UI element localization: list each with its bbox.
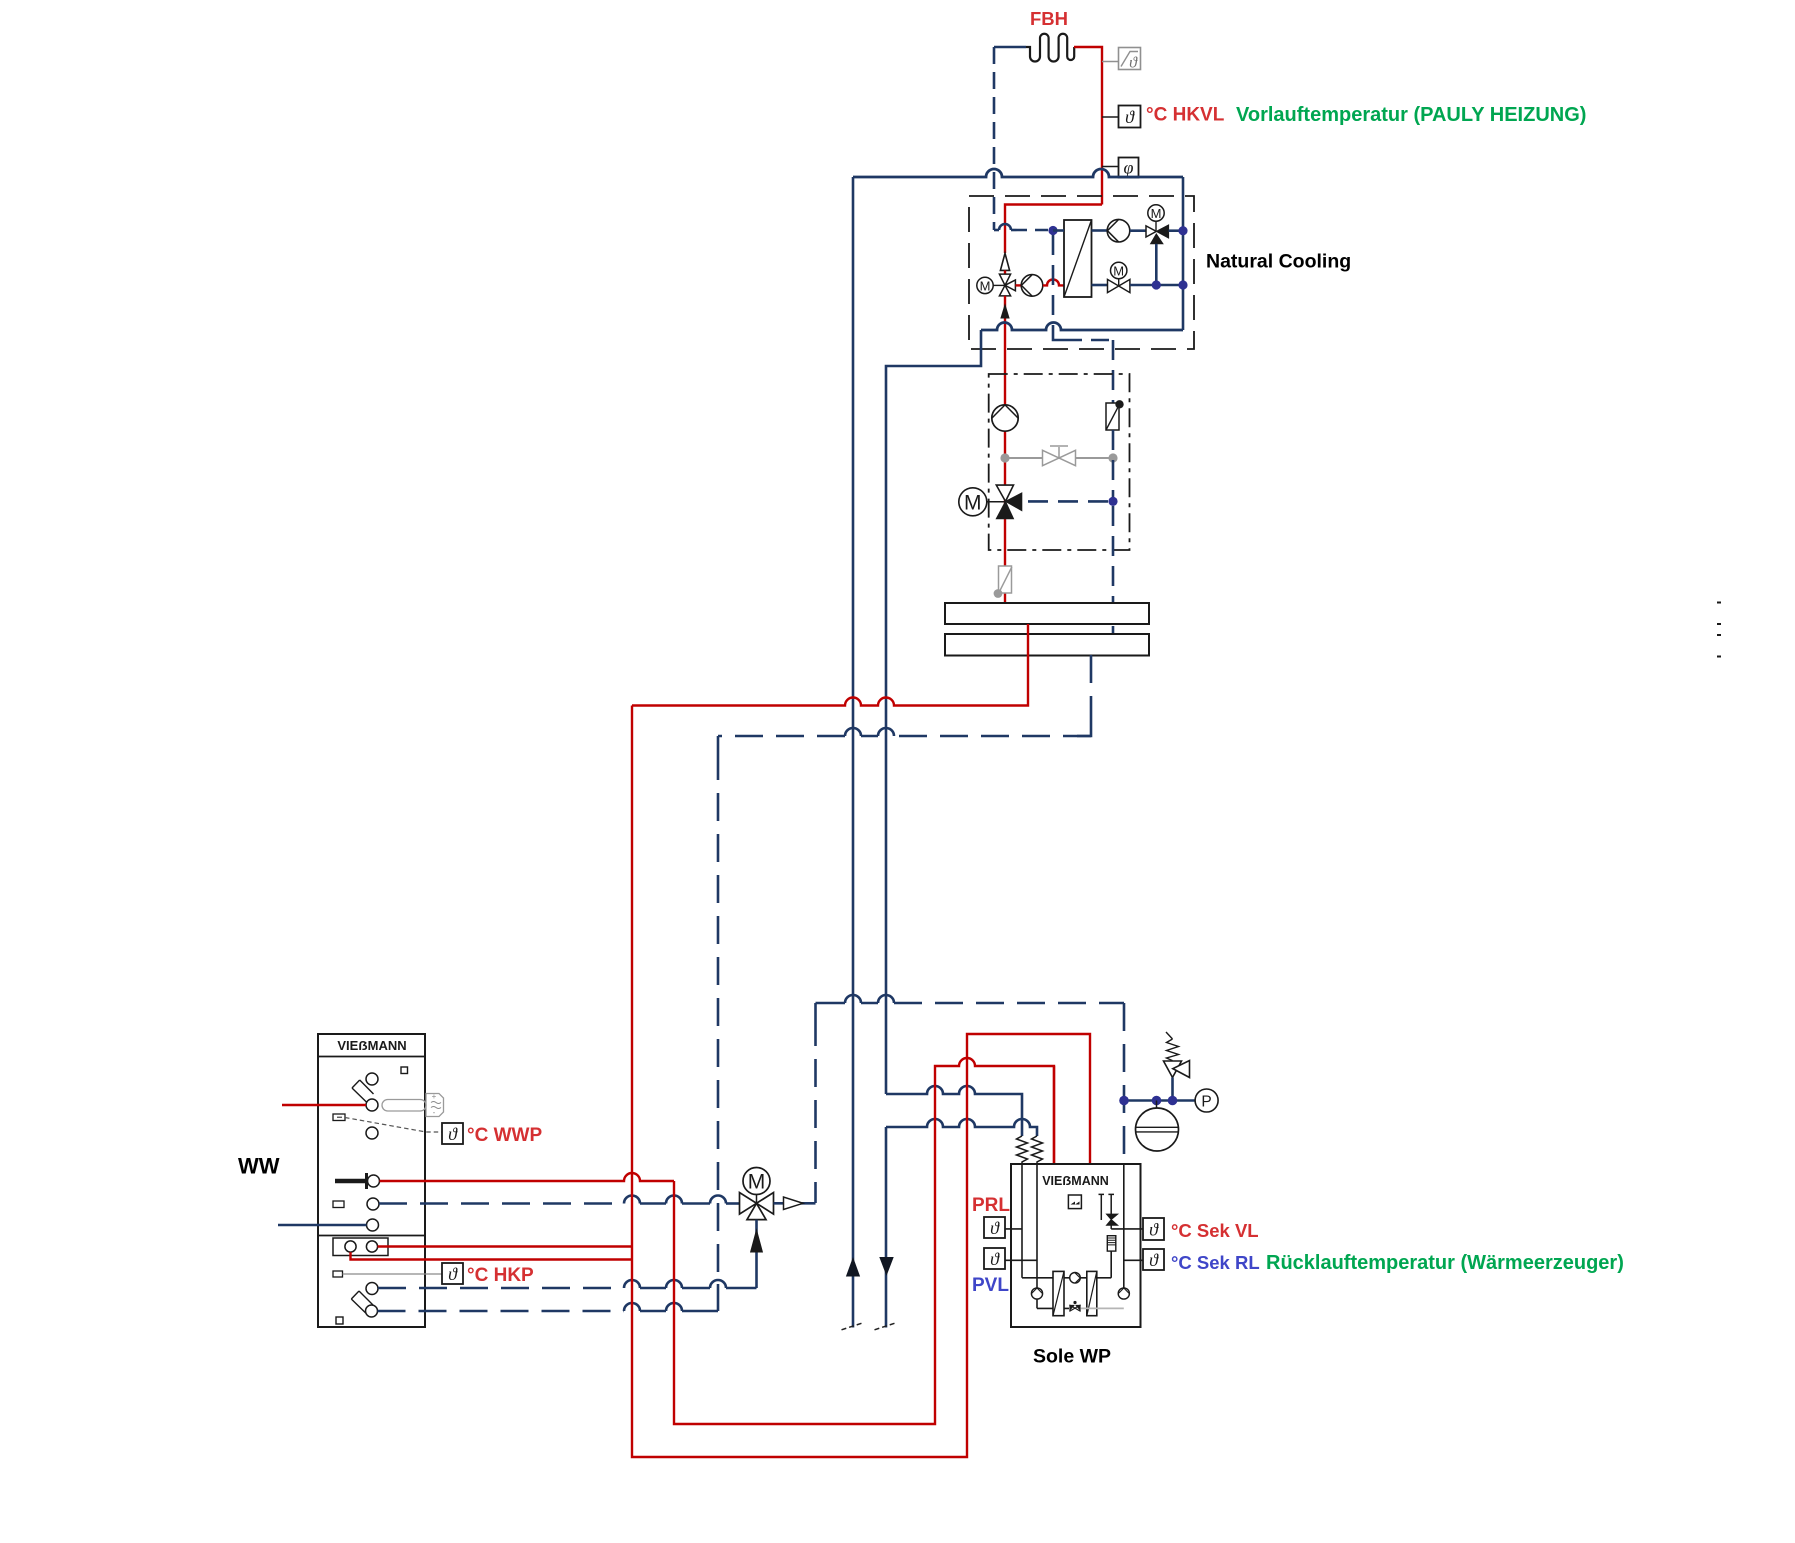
svg-text:PVL: PVL — [972, 1275, 1009, 1296]
svg-text:+: + — [432, 1092, 437, 1101]
break mark brine down pipe — [875, 1323, 898, 1330]
wire blue dashed mix inlet from flow switch drop — [1112, 430, 1115, 497]
heating circuit box border (dash-dot) — [989, 374, 1130, 550]
svg-text:ϑ: ϑ — [448, 1124, 458, 1144]
break mark brine riser — [842, 1323, 865, 1330]
WP pump left — [1031, 1288, 1042, 1299]
sensor connector phi — [1102, 166, 1119, 168]
WP drain valve — [1069, 1305, 1080, 1312]
sensor lead to HKP box — [343, 1273, 443, 1275]
node gray left — [1000, 453, 1009, 462]
wire blue WP brine return y=1127 with hops over x=935, x=967, x=1022 — [886, 1119, 1037, 1136]
wire red FBH supply from coil — [1074, 47, 1102, 205]
brine expansion coil left — [1017, 1136, 1028, 1164]
svg-text:-: - — [433, 1108, 436, 1117]
expansion vessel stub — [1156, 1101, 1158, 1109]
wire blue gate valve to right — [1130, 284, 1183, 287]
tank small square top — [401, 1067, 408, 1074]
wire blue dashed tank y=1204 with hops over x=632,674,717 — [379, 1202, 624, 1205]
svg-text:ϑ: ϑ — [448, 1264, 458, 1284]
wire blue dashed WP supply y=1003 with hops over x=852 and x=886 — [816, 1002, 846, 1005]
svg-text:ϑ: ϑ — [1125, 107, 1135, 127]
wire blue dashed NC top inlet with hop over red x=1005 — [994, 229, 999, 232]
pump heating circuit — [992, 405, 1018, 431]
wire red block right to riser — [378, 1245, 632, 1247]
wire red NC inlet elbow — [1005, 205, 1102, 254]
svg-text:M: M — [1113, 264, 1124, 279]
svg-text:ϑ: ϑ — [1149, 1250, 1159, 1270]
tank port circle B — [366, 1099, 378, 1111]
expansion vessel — [1136, 1108, 1179, 1151]
flow arrow up on brine riser x=853 — [847, 1259, 860, 1277]
manifold lower bar — [945, 634, 1149, 656]
svg-text:VIEẞMANN: VIEẞMANN — [1042, 1174, 1109, 1188]
flow switch paddle (below box) — [999, 566, 1012, 593]
wire blue safety valve stub — [1171, 1078, 1174, 1101]
wire blue NC bottom return with hops over x=1005 and x=1053 — [981, 323, 1183, 330]
tank port circle H — [367, 1219, 379, 1231]
svg-text:ϑ: ϑ — [990, 1218, 1000, 1238]
wire blue dashed HX bypass drop x=1053 — [1052, 235, 1055, 330]
heat exchanger NC — [1064, 220, 1092, 297]
wire blue dashed drop x=718 — [717, 736, 720, 752]
wire red valve to NC pump — [1015, 284, 1021, 286]
3-way valve NC top (black right and bottom) — [1146, 226, 1156, 237]
flow switch paddle (in box) — [1106, 403, 1119, 430]
wire blue dashed WP drop x=1124 — [1123, 1003, 1126, 1164]
wire blue NC valve bottom drop — [1155, 244, 1158, 285]
tank port circle K — [366, 1283, 378, 1295]
wire blue dashed manifold return riser x=1091 — [1090, 655, 1093, 720]
sensor connector gray — [1102, 61, 1119, 63]
KFE pipes with caps — [1099, 1194, 1115, 1220]
wire blue dashed down to manifold — [1112, 506, 1115, 634]
PVL connector — [1005, 1259, 1037, 1261]
tank port circle E — [368, 1175, 380, 1187]
svg-text:ϑ: ϑ — [1149, 1220, 1159, 1240]
WP Sek RL connector — [1124, 1259, 1143, 1261]
svg-text:Vorlauftemperatur (PAULY HEIZU: Vorlauftemperatur (PAULY HEIZUNG) — [1236, 104, 1586, 126]
wire blue elbow down-left to brine drop — [886, 330, 981, 1094]
wire blue inlet y=1225 — [278, 1224, 367, 1227]
wire blue dashed tank y=1311 with hops over x=632,674 — [378, 1310, 625, 1313]
wire blue dashed valve outlet riser x=815.5 — [814, 1003, 817, 1018]
svg-text:Natural Cooling: Natural Cooling — [1206, 251, 1351, 273]
WP condenser HX1 — [1053, 1271, 1064, 1315]
svg-text:°C Sek RL: °C Sek RL — [1171, 1252, 1260, 1273]
motor M for heating mix valve — [959, 488, 987, 516]
WP internal brine pipe right — [1037, 1164, 1069, 1308]
wire blue HX lower to gate valve — [1092, 284, 1108, 287]
check valve NC — [1000, 253, 1009, 270]
temperature sensor box HKP — [442, 1263, 463, 1284]
wire blue dashed tank y=1288 with hops over x=632,674,717 — [378, 1287, 624, 1290]
3-way diverting valve WW (white) — [740, 1193, 757, 1215]
floor-heating coil FBH — [1026, 34, 1074, 62]
electric heater capsule — [382, 1100, 426, 1112]
tank connection block — [333, 1238, 388, 1256]
tank port circle G — [367, 1198, 379, 1210]
wire red cold water inlet — [282, 1104, 366, 1106]
svg-text:°C HKVL: °C HKVL — [1146, 105, 1225, 126]
motor M for NC mixing valve — [977, 277, 993, 293]
wire blue valve outlet to riser — [774, 1202, 816, 1205]
PRL connector — [1005, 1228, 1022, 1230]
tank sensor tap J — [333, 1271, 343, 1277]
tank port circle L — [366, 1305, 378, 1317]
WP evaporator HX2 — [1087, 1271, 1097, 1315]
svg-text:°C HKP: °C HKP — [467, 1265, 534, 1286]
brine expansion coil right — [1032, 1136, 1043, 1164]
WP controller display — [1068, 1195, 1081, 1209]
svg-text:VIEẞMANN: VIEẞMANN — [337, 1038, 406, 1053]
wire red Sek RL drop into WP — [1053, 1066, 1055, 1164]
wire blue dot to HX top — [1053, 229, 1064, 232]
tank sensor tap WWP — [333, 1114, 345, 1121]
wire blue dashed FBH return drop x=994 — [993, 47, 996, 230]
svg-text:φ: φ — [1124, 158, 1134, 178]
motor M for NC gate valve — [1111, 262, 1127, 278]
svg-text:ϑ: ϑ — [1129, 55, 1138, 72]
wire blue HX top to pump — [1092, 229, 1108, 232]
safety valve spring — [1166, 1032, 1179, 1061]
node gray right — [1108, 453, 1117, 462]
temperature sensor box WWP — [442, 1123, 463, 1144]
tank port circle A — [366, 1073, 378, 1085]
flow direction triangle on outlet — [784, 1197, 804, 1210]
node NC lower right junction — [1178, 280, 1187, 289]
flow arrow up into valve — [751, 1230, 763, 1252]
tank WW outlet T-bar — [335, 1179, 366, 1183]
svg-text:M: M — [980, 278, 991, 293]
WP pump center — [1070, 1273, 1081, 1284]
wire blue return stub to coil — [994, 46, 1026, 49]
svg-text:PRL: PRL — [972, 1195, 1010, 1216]
wire blue valve to right header — [1169, 229, 1183, 232]
tank coil zigzag lower — [351, 1291, 373, 1313]
node mix branch — [1108, 497, 1117, 506]
svg-text:Rücklauftemperatur (Wärmeerzeu: Rücklauftemperatur (Wärmeerzeuger) — [1266, 1252, 1624, 1274]
flow arrow down on brine pipe x=886 — [880, 1258, 893, 1275]
node safety valve tee — [1168, 1096, 1178, 1106]
WP right internal vertical — [1123, 1164, 1125, 1288]
3-way mixing valve heating (black right+bottom) — [996, 485, 1013, 501]
temperature sensor box Sek RL — [1143, 1249, 1164, 1270]
tank coil zigzag upper — [352, 1080, 374, 1102]
block circle left — [345, 1241, 356, 1252]
wire blue pump to NC top valve — [1130, 229, 1146, 232]
node NC top-right junction — [1178, 226, 1187, 235]
Natural Cooling box border — [969, 196, 1194, 349]
manifold upper bar — [945, 603, 1149, 624]
gate valve NC lower — [1108, 279, 1130, 292]
3-way mixing valve NC (white) — [999, 274, 1010, 285]
gray balancing line — [1005, 457, 1113, 459]
wire blue WP brine supply y=1094 with hops over x=935 and x=967 — [886, 1086, 1022, 1136]
sensor connector black — [1102, 116, 1119, 118]
wire blue valve bottom inlet — [755, 1220, 758, 1288]
pump NC upper — [1107, 219, 1130, 242]
sensor box outdoor-compensated (gray) — [1119, 48, 1141, 70]
flow arrow up on red supply — [1001, 305, 1009, 318]
motor M for WW diverting valve — [743, 1168, 770, 1195]
svg-text:M: M — [748, 1171, 766, 1194]
KFE valve (black bowtie vertical) — [1107, 1214, 1118, 1225]
svg-text:WW: WW — [238, 1154, 280, 1179]
WW storage tank body — [318, 1034, 425, 1327]
tank lower divider — [318, 1235, 425, 1237]
temperature sensor box Sek VL — [1143, 1218, 1164, 1240]
wire red x=674 down and over to x=935 up, hop over x=967 on y=1066 — [674, 1058, 1054, 1424]
svg-text:°C WWP: °C WWP — [467, 1125, 542, 1146]
tick marks right margin — [1717, 602, 1721, 604]
pump NC lower — [1021, 275, 1043, 297]
temperature sensor box HKVL — [1119, 106, 1141, 128]
svg-text:Sole WP: Sole WP — [1033, 1346, 1111, 1368]
node NC top-left junction — [1048, 226, 1057, 235]
wire red manifold outlet drop with hops over x=886 and x=852 — [632, 624, 1028, 706]
Sole WP box — [1011, 1164, 1141, 1327]
node safety header left — [1119, 1096, 1129, 1106]
gate valve gray with T-handle — [1043, 450, 1076, 465]
tank sensor tap F — [333, 1201, 344, 1208]
wire red WW line y=1181 with hop over x=632 — [380, 1173, 675, 1181]
WP Sek VL connector — [1111, 1228, 1143, 1230]
wire red block left drop and run — [351, 1252, 633, 1259]
tank small square bottom — [336, 1317, 343, 1324]
svg-text:°C Sek VL: °C Sek VL — [1171, 1220, 1259, 1241]
WP pump right — [1118, 1288, 1129, 1299]
WP internal brine pipe left — [1022, 1164, 1053, 1278]
node NC lower mid junction — [1152, 280, 1161, 289]
wire blue dashed long return y=736 with hops over x=852 and x=886 — [894, 735, 1091, 738]
humidity sensor box phi — [1119, 158, 1139, 178]
node expansion vessel tee — [1152, 1096, 1162, 1106]
svg-text:FBH: FBH — [1030, 8, 1068, 29]
svg-text:P: P — [1201, 1093, 1211, 1110]
motor M for NC top valve — [1148, 205, 1164, 221]
wire blue brine down pipe x=886 — [885, 1127, 888, 1328]
wire blue brine riser x=853 — [852, 177, 855, 1328]
safety valve triangles — [1164, 1061, 1182, 1078]
wire blue NC right drop x=1183 — [1182, 177, 1185, 330]
svg-text:M: M — [1151, 206, 1162, 221]
svg-text:M: M — [964, 491, 982, 514]
tank port circle D — [366, 1127, 378, 1139]
electric heater plug hexagon — [426, 1094, 444, 1117]
temperature sensor box PVL — [984, 1248, 1005, 1269]
wire blue header y=177 with hops over x=994 and x=1101 — [853, 169, 1183, 177]
wire red NC supply drop with arrow — [1004, 296, 1006, 603]
svg-text:ϑ: ϑ — [990, 1249, 1000, 1269]
sensor lead to WWP box — [345, 1118, 442, 1133]
pressure gauge P — [1195, 1089, 1218, 1112]
filter on VL — [1107, 1236, 1116, 1251]
wire blue safety header — [1124, 1099, 1195, 1102]
wire red check valve to mix valve — [1004, 270, 1006, 274]
wire red pump to HX with hop over dashed x=1053 — [1043, 279, 1064, 285]
wire red riser x=632 down and over to x=967 — [632, 706, 1090, 1458]
block circle right — [366, 1241, 377, 1252]
WP gray internal line — [1081, 1307, 1124, 1309]
WP internal top connect — [1064, 1277, 1111, 1279]
temperature sensor box PRL — [984, 1217, 1005, 1238]
tank header divider — [318, 1056, 425, 1058]
